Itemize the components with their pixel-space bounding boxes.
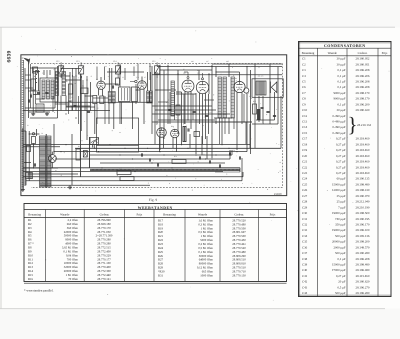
svg-text:WEERSTANDEN: WEERSTANDEN (138, 206, 173, 210)
capacitor C4 (73, 104, 76, 106)
capacitor C7 (29, 94, 31, 97)
capacitor C35 (218, 164, 220, 167)
left border wire with solder ticks (22, 58, 24, 187)
svg-text:28.198.200: 28.198.200 (356, 240, 370, 244)
svg-text:R2: R2 (82, 85, 84, 88)
mains transformer T4 primary winding (40, 136, 46, 187)
svg-text:28.196.208: 28.196.208 (356, 79, 370, 83)
svg-text:C2: C2 (302, 62, 306, 66)
svg-text:C10: C10 (302, 108, 308, 112)
capacitor C3 (68, 100, 71, 102)
coil L3 RF winding (56, 72, 59, 96)
wire B7 leads (159, 137, 161, 152)
svg-text:C35: C35 (302, 240, 308, 244)
svg-text:0,27 μF: 0,27 μF (336, 160, 346, 164)
loudspeaker housing box (252, 79, 283, 98)
svg-text:C3: C3 (71, 96, 73, 99)
svg-text:T1b: T1b (136, 76, 139, 79)
variable capacitor C15 (tuning gang section) (155, 66, 160, 74)
wire antenna lead (28, 65, 30, 119)
svg-text:28.118.460: 28.118.460 (356, 137, 370, 141)
capacitor C33 (198, 156, 200, 159)
svg-text:C22: C22 (302, 165, 308, 169)
svg-text:0,27 μF: 0,27 μF (336, 154, 346, 158)
dial scale box (90, 138, 99, 145)
svg-text:L5: L5 (144, 76, 146, 79)
svg-text:B5: B5 (156, 123, 158, 126)
svg-text:P: P (87, 134, 88, 137)
connector block (83, 151, 87, 158)
svg-text:19000 μμF: 19000 μμF (332, 228, 346, 232)
svg-text:21920: 21920 (274, 192, 282, 196)
svg-text:28.196.208: 28.196.208 (356, 85, 370, 89)
svg-text:446: 446 (191, 60, 194, 63)
svg-text:28.196.200: 28.196.200 (356, 102, 370, 106)
capacitor C31 (148, 158, 150, 161)
svg-text:0,1 μF: 0,1 μF (337, 68, 345, 72)
svg-text:C29: C29 (302, 205, 308, 209)
resistor R20 (253, 104, 257, 114)
tube B2 oscillator (138, 81, 147, 90)
tube B3 top cap (187, 77, 189, 79)
svg-text:C33: C33 (302, 228, 308, 232)
svg-text:C19: C19 (302, 148, 308, 152)
output transformer T3 (256, 81, 266, 95)
rectifier lamp (48, 155, 56, 163)
svg-text:C23: C23 (302, 171, 308, 175)
svg-text:R10: R10 (166, 101, 169, 104)
svg-text:70 Ohm: 70 Ohm (68, 277, 78, 281)
capacitor C2 (45, 91, 48, 93)
capacitor C34 (208, 160, 210, 163)
svg-text:28.115.460: 28.115.460 (356, 274, 370, 278)
svg-text:28.190.070: 28.190.070 (356, 194, 370, 198)
coil L1 aerial coil (40, 78, 58, 102)
wire output verticals (254, 64, 256, 148)
transformer core (45, 134, 47, 188)
svg-text:R14: R14 (174, 155, 177, 158)
svg-text:T3: T3 (258, 66, 260, 69)
svg-text:* weerstanden parallel.: * weerstanden parallel. (24, 289, 54, 293)
diode small circle (244, 88, 249, 93)
tube B3 top cap (202, 78, 204, 80)
svg-text:28.118.460: 28.118.460 (356, 142, 370, 146)
svg-text:28.770.130: 28.770.130 (232, 273, 246, 277)
svg-text:0,1 μF: 0,1 μF (337, 102, 345, 106)
svg-text:C12: C12 (56, 60, 59, 63)
capacitor C42 (273, 114, 276, 116)
svg-text:R3: R3 (66, 80, 68, 83)
wire IF amp horizontals (157, 66, 282, 68)
trimmer capacitor C11 (33, 67, 38, 73)
weerstanden table frame (24, 204, 287, 293)
svg-text:R30: R30 (78, 145, 81, 148)
svg-text:28.180.620: 28.180.620 (356, 280, 370, 284)
svg-text:C37: C37 (302, 251, 308, 255)
bus wire heater b (100, 162, 225, 164)
svg-text:C36: C36 (302, 245, 308, 249)
capacitor C20 (168, 108, 171, 110)
svg-text:0,1 μF: 0,1 μF (337, 257, 345, 261)
IF transformer T2 winding b (223, 77, 226, 118)
tube B3 IF amplifier (182, 80, 194, 92)
svg-text:350 μμF: 350 μμF (335, 222, 346, 226)
bus wire AF feed (23, 176, 243, 178)
svg-text:C14: C14 (113, 60, 116, 63)
svg-text:2000 μμF: 2000 μμF (334, 245, 346, 249)
svg-text:28.210.190: 28.210.190 (356, 205, 370, 209)
bus wire heater a (55, 158, 230, 160)
svg-text:L3: L3 (105, 65, 107, 68)
svg-text:C42: C42 (302, 280, 308, 284)
resistor R13 (120, 177, 134, 181)
wire IF1 verticals (119, 64, 121, 87)
svg-text:0,1 μF: 0,1 μF (337, 74, 345, 78)
capacitor C30 (140, 153, 142, 156)
ground ant coil (32, 112, 34, 114)
svg-text:C6: C6 (112, 97, 114, 100)
electrolytic capacitor C45 (257, 109, 261, 120)
svg-text:0-490 μμF: 0-490 μμF (332, 131, 345, 135)
svg-text:C30: C30 (302, 211, 308, 215)
svg-text:C32: C32 (302, 222, 308, 226)
svg-text:CONDENSATOREN: CONDENSATOREN (324, 43, 366, 48)
svg-text:C28: C28 (302, 200, 308, 204)
svg-text:C6: C6 (302, 85, 306, 89)
coil L4 RF winding 2 (62, 72, 66, 96)
ground power 2 (69, 186, 71, 188)
wire mixer verticals (60, 66, 62, 72)
svg-text:28.196.206: 28.196.206 (356, 74, 370, 78)
svg-text:B6: B6 (171, 125, 173, 128)
wire osc2 coil leads (147, 72, 149, 91)
antenna (24, 58, 30, 64)
svg-text:28.196.100: 28.196.100 (356, 228, 370, 232)
capacitor C40 (260, 106, 263, 108)
svg-text:Benaming: Benaming (163, 212, 176, 216)
svg-text:25 μμF: 25 μμF (337, 200, 346, 204)
svg-text:9000 μμF: 9000 μμF (334, 97, 346, 101)
junction dots extra (60, 66, 244, 123)
svg-text:0,5 μF: 0,5 μF (337, 285, 345, 289)
svg-text:30 μμF: 30 μμF (337, 108, 346, 112)
svg-text:500 μμF: 500 μμF (335, 291, 346, 295)
resistor R10 (176, 105, 180, 115)
variable capacitor C14 (tuning gang section) (116, 66, 121, 74)
capacitor C6 (111, 85, 113, 88)
svg-text:C12: C12 (302, 114, 308, 118)
svg-text:28.212.040: 28.212.040 (356, 200, 370, 204)
svg-text:B2: B2 (183, 68, 185, 71)
svg-text:C5: C5 (85, 107, 87, 110)
coil L2 aerial coil secondary (36, 104, 44, 112)
svg-text:17000 μμF: 17000 μμF (332, 268, 346, 272)
svg-text:Waarde: Waarde (60, 212, 70, 216)
coil L8 (231, 77, 234, 118)
wire gap fillers (66, 64, 138, 111)
svg-text:6639: 6639 (7, 51, 13, 63)
svg-text:Benaming: Benaming (302, 51, 315, 55)
wire harness upper middle (73, 64, 247, 144)
wire power verticals (22, 128, 24, 188)
svg-text:C20: C20 (302, 154, 308, 158)
heater resistance wire (90, 168, 240, 170)
IF transformer T2 winding a (218, 77, 221, 118)
bus wire mains a (26, 180, 242, 182)
svg-text:C44: C44 (302, 291, 308, 295)
tube B4 detector (196, 81, 208, 93)
svg-text:C41: C41 (302, 274, 308, 278)
resistor R12 (117, 171, 131, 175)
capacitor C37 (238, 156, 240, 159)
svg-text:28.770.121: 28.770.121 (97, 277, 111, 281)
tube B6 output pentode (234, 81, 245, 92)
svg-text:28.198.480: 28.198.480 (356, 263, 370, 267)
svg-text:7 μμF: 7 μμF (338, 205, 346, 209)
tube B2 grid cap (135, 80, 137, 82)
capacitor C8 (27, 99, 29, 102)
svg-text:C7: C7 (302, 91, 306, 95)
svg-text:500 μμF: 500 μμF (335, 251, 346, 255)
svg-text:28.196.480: 28.196.480 (356, 268, 370, 272)
wire left bus 2 (23, 60, 25, 190)
svg-text:T4: T4 (41, 132, 43, 135)
screened box AF section (92, 118, 138, 152)
svg-text:C9: C9 (302, 102, 306, 106)
svg-text:0,27 μF: 0,27 μF (336, 148, 346, 152)
svg-text:C30: C30 (144, 150, 147, 153)
svg-text:28.118.460: 28.118.460 (356, 165, 370, 169)
scan speckles (12, 31, 389, 301)
svg-text:28.198.410: 28.198.410 (356, 188, 370, 192)
svg-text:Codenr.: Codenr. (358, 51, 368, 55)
svg-text:28.180.051: 28.180.051 (356, 62, 370, 66)
svg-text:Prijs: Prijs (137, 212, 143, 216)
svg-text:20 μF: 20 μF (338, 280, 346, 284)
svg-text:C22: C22 (209, 111, 212, 114)
svg-text:C34: C34 (302, 234, 308, 238)
mains transformer T4 secondary winding (47, 136, 51, 187)
svg-text:R20: R20 (253, 100, 256, 103)
svg-text:0,1 μF: 0,1 μF (337, 85, 345, 89)
svg-text:28.196.208: 28.196.208 (356, 68, 370, 72)
bus wire rectifier feed (23, 146, 60, 148)
bus wire ground return (23, 167, 240, 169)
svg-text:28.180.420: 28.180.420 (356, 108, 370, 112)
svg-text:R31: R31 (158, 273, 164, 277)
resistor R4 (116, 78, 120, 85)
svg-text:C15: C15 (152, 60, 155, 63)
svg-text:0-490 μμF: 0-490 μμF (332, 125, 345, 129)
svg-text:0-490 μμF: 0-490 μμF (332, 120, 345, 124)
svg-text:0,1 μF: 0,1 μF (337, 79, 345, 83)
capacitor C36 (228, 152, 230, 155)
svg-text:1000 Ohm: 1000 Ohm (200, 273, 213, 277)
electrolytic block (183, 127, 186, 142)
svg-text:30 μμF: 30 μμF (337, 62, 346, 66)
svg-text:R1: R1 (34, 75, 36, 78)
svg-text:28.198.480: 28.198.480 (356, 182, 370, 186)
wire ant extra horizontals (25, 75, 44, 99)
dashed chassis/screen border (31, 64, 282, 188)
svg-text:12000 μμF: 12000 μμF (332, 188, 346, 192)
svg-text:Waarde: Waarde (198, 212, 208, 216)
svg-text:C31: C31 (302, 217, 308, 221)
ground power 1 (22, 188, 24, 190)
capacitor C5 (87, 110, 90, 112)
svg-text:T2: T2 (220, 73, 222, 76)
coil L6 oscillator winding 2 (112, 92, 115, 104)
coil L7 choke (171, 81, 174, 116)
svg-text:B4: B4 (235, 77, 237, 80)
wire power horizontals (22, 130, 27, 132)
bus wire cathode (54, 151, 247, 153)
svg-text:449: 449 (197, 72, 200, 75)
loudspeaker LS (269, 82, 271, 94)
wire B4 leads (199, 93, 201, 124)
condensatoren table frame (299, 42, 392, 297)
junctions mixer (60, 75, 61, 76)
svg-text:28.198.170: 28.198.170 (356, 91, 370, 95)
svg-text:28.180.052: 28.180.052 (356, 57, 370, 61)
svg-text:C2: C2 (53, 68, 55, 71)
svg-text:28.190.280: 28.190.280 (356, 251, 370, 255)
junctions det (215, 71, 216, 72)
svg-text:740 μμF: 740 μμF (335, 217, 346, 221)
svg-text:19000 μμF: 19000 μμF (332, 211, 346, 215)
svg-text:15000 μμF: 15000 μμF (332, 263, 346, 267)
svg-text:28.148.570: 28.148.570 (356, 245, 370, 249)
coil L5 oscillator winding (108, 92, 111, 104)
wire IF1 horizontals (105, 83, 119, 85)
svg-text:28.196.170: 28.196.170 (356, 222, 370, 226)
svg-text:C13: C13 (302, 120, 308, 124)
svg-text:28.118.460: 28.118.460 (356, 171, 370, 175)
svg-text:448: 448 (183, 72, 186, 75)
resistor R5 cathode (93, 96, 97, 104)
svg-text:28.210.134: 28.210.134 (357, 123, 371, 127)
resistor R1 (31, 79, 36, 90)
coil L7 osc winding a (147, 91, 150, 103)
tube B8 rectifier (171, 129, 179, 137)
bus wire +HT (23, 144, 250, 146)
wire mixer horizontals (57, 75, 70, 77)
variable capacitor C12 (tuning gang section) (59, 66, 64, 74)
svg-text:Codenr.: Codenr. (234, 212, 244, 216)
wire B8 leads (172, 137, 174, 148)
svg-text:30 μμF: 30 μμF (337, 57, 346, 61)
svg-text:C17: C17 (302, 137, 308, 141)
svg-text:0,27 μF: 0,27 μF (336, 142, 346, 146)
svg-text:500 μμF: 500 μμF (335, 234, 346, 238)
resistor R2 (81, 88, 89, 94)
svg-text:9000 μμF: 9000 μμF (334, 91, 346, 95)
bus wire mains b (40, 184, 150, 186)
junctions power (29, 133, 30, 134)
capacitor C1 (37, 91, 40, 93)
svg-text:0,27 μF: 0,27 μF (336, 137, 346, 141)
wire IF amp verticals (159, 65, 161, 150)
coil smoothing choke (26, 173, 33, 179)
svg-text:28.198.170: 28.198.170 (356, 97, 370, 101)
capacitor C43 (33, 163, 35, 166)
svg-text:28.198.500: 28.198.500 (356, 211, 370, 215)
svg-text:S1: S1 (27, 124, 29, 127)
bus wire AVC (90, 154, 232, 156)
wire output horizontals (252, 123, 278, 125)
svg-text:R16: R16 (28, 277, 34, 281)
bus wire screen (75, 147, 281, 149)
svg-text:28.195.136: 28.195.136 (356, 234, 370, 238)
svg-text:C1: C1 (302, 57, 306, 61)
junctions IF amp (159, 69, 160, 70)
svg-text:C39: C39 (302, 263, 308, 267)
svg-text:35 μμF: 35 μμF (337, 194, 346, 198)
svg-text:60 μμF: 60 μμF (337, 177, 346, 181)
svg-text:20000 μμF: 20000 μμF (332, 240, 346, 244)
svg-text:448: 448 (226, 60, 229, 63)
ground coil L2 (46, 112, 48, 114)
wire det verticals (215, 67, 217, 78)
svg-text:C18: C18 (302, 142, 308, 146)
svg-text:C4: C4 (302, 74, 306, 78)
tube B7 AF amplifier (157, 128, 167, 138)
svg-text:28.190.135: 28.190.135 (356, 177, 370, 181)
bus junction dots (98, 151, 99, 152)
svg-text:0,27 μF: 0,27 μF (336, 165, 346, 169)
svg-text:C26: C26 (302, 188, 308, 192)
svg-text:Codenr.: Codenr. (100, 212, 110, 216)
svg-text:28.118.460: 28.118.460 (356, 154, 370, 158)
svg-text:28.196.280: 28.196.280 (356, 291, 370, 295)
wire B1 leads (98, 89, 100, 96)
wire lamp leads (51, 163, 53, 168)
svg-text:Prijs: Prijs (382, 51, 388, 55)
svg-text:Waarde: Waarde (328, 51, 338, 55)
capacitor C21 (192, 110, 195, 112)
svg-text:C15: C15 (302, 131, 308, 135)
capacitor C32 (156, 163, 158, 166)
resistor R14 (172, 160, 186, 164)
wire AF verticals (189, 134, 191, 148)
switch contact dots (36, 70, 37, 71)
resistor R6 cathode (100, 96, 104, 104)
resistor R11 (194, 132, 200, 137)
component box bandfilter (119, 87, 131, 102)
svg-text:28.118.460: 28.118.460 (356, 160, 370, 164)
svg-text:C13: C13 (76, 60, 79, 63)
svg-text:15000 μμF: 15000 μμF (332, 182, 346, 186)
svg-text:0,27 μF: 0,27 μF (336, 274, 346, 278)
svg-text:C38: C38 (302, 257, 308, 261)
svg-text:C36: C36 (232, 149, 235, 152)
capacitor C41 (266, 110, 269, 112)
svg-text:28.190.195: 28.190.195 (356, 217, 370, 221)
tube B1 mixer (97, 81, 105, 89)
svg-text:C25: C25 (302, 182, 308, 186)
wire ant section verticals (32, 68, 34, 112)
svg-text:L1: L1 (42, 72, 44, 75)
svg-text:C33: C33 (202, 153, 205, 156)
svg-text:0-490 μμF: 0-490 μμF (332, 114, 345, 118)
resistor R30 (76, 149, 80, 160)
wire B6 leads (236, 93, 238, 151)
svg-text:C27: C27 (302, 194, 308, 198)
svg-text:28.196.208: 28.196.208 (356, 257, 370, 261)
wire ant section horizontals (30, 67, 58, 69)
variable capacitor C13 (tuning gang section) (79, 66, 84, 74)
svg-text:C3: C3 (302, 68, 306, 72)
